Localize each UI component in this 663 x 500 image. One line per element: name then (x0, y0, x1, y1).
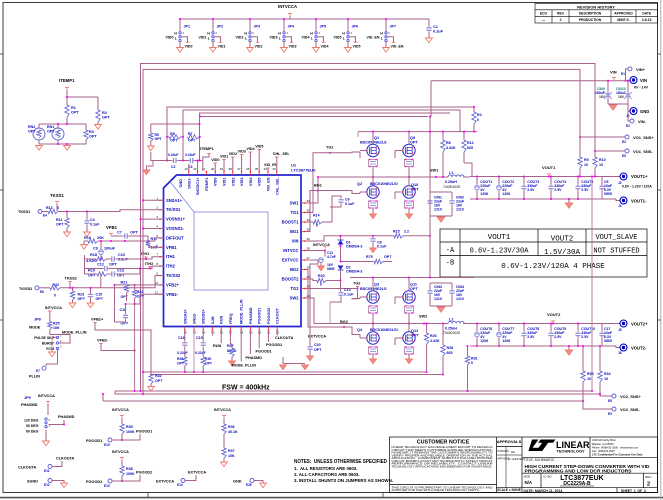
U1 pin 27 EXTVCC (301, 259, 305, 261)
svg-text:R28: R28 (447, 346, 454, 350)
resistor network RN2 (33, 128, 45, 140)
svg-text:GND: GND (640, 109, 649, 114)
svg-text:PHASMD: PHASMD (58, 415, 75, 419)
connector J1 VIN (430, 81, 431, 117)
capacitor COUT6 (475, 332, 480, 337)
svg-text:GND: GND (179, 179, 183, 188)
U1 top pin VID3 (241, 171, 243, 175)
U1 pad diagonal (170, 182, 194, 213)
resistor R9 (578, 157, 582, 168)
svg-text:10K: 10K (228, 454, 235, 458)
svg-text:VID4: VID4 (246, 147, 255, 151)
ground COUT bank (568, 199, 570, 203)
U1 top pin VID0 (214, 171, 216, 175)
wire C2 row left elbow (151, 152, 167, 161)
svg-text:SW2: SW2 (290, 296, 300, 301)
svg-text:E10: E10 (104, 443, 110, 447)
connector E6 (35, 286, 39, 290)
connector E7 (42, 366, 46, 370)
capacitor C11 (305, 250, 325, 252)
svg-text:L: L (208, 37, 210, 41)
svg-text:VID3: VID3 (289, 44, 297, 48)
svg-text:PROGRAMMING AND LOW DCR INDUCT: PROGRAMMING AND LOW DCR INDUCTORS (525, 469, 633, 475)
U1 pin 8 ITH2 (160, 265, 164, 267)
svg-text:CLKOUTA: CLKOUTA (56, 457, 75, 461)
U1 pin 25 BOOST2 (301, 278, 305, 280)
svg-text:RUN: RUN (213, 344, 221, 348)
svg-text:L: L (381, 37, 383, 41)
svg-text:0.1uF: 0.1uF (377, 245, 387, 249)
wire SW1 pin (305, 177, 318, 203)
wire VFB2- drop (134, 304, 136, 351)
svg-text:C2: C2 (171, 165, 176, 169)
wire SNSA1+ pin (143, 199, 164, 201)
svg-text:JP1: JP1 (184, 25, 191, 29)
svg-text:39: 39 (220, 167, 224, 171)
svg-text:VID_EN: VID_EN (391, 44, 404, 48)
svg-text:VID2: VID2 (229, 152, 237, 156)
svg-text:2.5V: 2.5V (554, 188, 562, 192)
svg-text:Q1: Q1 (374, 136, 379, 140)
ground below JP6 (347, 42, 349, 48)
svg-text:R25: R25 (53, 322, 60, 326)
svg-text:ITEMP1: ITEMP1 (200, 147, 214, 151)
svg-text:E5: E5 (622, 154, 626, 158)
svg-text:10K: 10K (53, 326, 60, 330)
svg-text:SW2: SW2 (419, 315, 427, 319)
wire VO2_SNS+ (600, 382, 612, 396)
svg-text:R34: R34 (604, 372, 611, 376)
ground below JP3 (249, 42, 251, 48)
svg-text:OPT: OPT (410, 141, 418, 145)
U1 pin 7 ITH1 (160, 256, 164, 258)
svg-text:E3: E3 (622, 140, 626, 144)
svg-text:60 DEG: 60 DEG (26, 430, 39, 434)
wire Q4 drain (372, 324, 374, 332)
svg-text:CHL_SEL: CHL_SEL (273, 152, 291, 156)
svg-text:OPT: OPT (121, 295, 129, 299)
svg-text:SIZE: SIZE (524, 474, 530, 478)
svg-text:35: 35 (255, 167, 259, 171)
svg-text:0: 0 (320, 283, 322, 287)
svg-text:6V - 14V: 6V - 14V (634, 86, 649, 90)
svg-text:R10: R10 (599, 158, 606, 162)
svg-text:VID5: VID5 (353, 44, 361, 48)
svg-text:120 DEG: 120 DEG (24, 419, 39, 423)
svg-text:OPT: OPT (177, 362, 185, 366)
svg-text:TG1: TG1 (291, 210, 300, 215)
svg-text:OPT: OPT (155, 379, 163, 383)
svg-text:0.22uF: 0.22uF (185, 153, 195, 157)
svg-text:INTVCCA: INTVCCA (112, 408, 129, 412)
ground below C1 (428, 32, 430, 38)
svg-text:VOUT2: VOUT2 (547, 312, 561, 317)
wire COUT2 top bus (470, 323, 612, 325)
svg-text:C4: C4 (90, 218, 95, 222)
svg-text:30.1K: 30.1K (228, 430, 238, 434)
ground C2 row (147, 161, 154, 171)
svg-text:SW1: SW1 (290, 201, 300, 206)
svg-text:BOOST1: BOOST1 (282, 220, 300, 225)
jumper JP1 (179, 19, 181, 32)
svg-text:ECO: ECO (540, 12, 548, 16)
svg-text:INTVCCA: INTVCCA (112, 450, 129, 454)
ground R2 (97, 122, 99, 125)
svg-text:0: 0 (57, 206, 59, 210)
svg-text:E12: E12 (44, 483, 50, 487)
svg-text:E4: E4 (43, 214, 47, 218)
wire remote sense loop 2 (143, 69, 580, 394)
resistor R4 (472, 112, 476, 124)
wire SNS bottom (193, 331, 195, 373)
U1 top pin VID5 (258, 171, 260, 175)
wire gates Q4 Q12 (360, 337, 367, 339)
svg-text:VFB2-: VFB2- (97, 338, 109, 343)
U1 bottom pin ILIM (211, 327, 213, 331)
SW2 bus wire (314, 323, 448, 325)
svg-text:E7: E7 (36, 369, 40, 373)
junction dots (429, 131, 431, 133)
wire TKSS1 (56, 204, 58, 211)
op-amp U1 LTC3877EUK outline (164, 175, 302, 327)
capacitor COUT7 (497, 332, 502, 337)
wire ITEMP band 1 (167, 107, 474, 161)
package pads Q10 (405, 201, 414, 208)
jumper JP6 (347, 19, 349, 32)
svg-text:CLKOUTA: CLKOUTA (275, 336, 294, 340)
wire loop to VOSNS1- (143, 228, 164, 230)
U1 pin 11 VFB2- (160, 293, 164, 295)
svg-text:E13: E13 (104, 484, 110, 488)
svg-text:EXTVCCA: EXTVCCA (308, 335, 326, 339)
svg-text:REV: REV (557, 12, 565, 16)
capacitor C6 (340, 198, 342, 200)
svg-text:VID3: VID3 (240, 178, 244, 186)
svg-text:SW1: SW1 (430, 169, 438, 173)
svg-text:BOOST2: BOOST2 (282, 277, 300, 282)
svg-text:VOUT1: VOUT1 (542, 165, 556, 170)
svg-text:0.1uF: 0.1uF (345, 202, 355, 206)
svg-text:2.5V: 2.5V (581, 188, 589, 192)
wire JP4 pin 2 to net flag (285, 37, 291, 43)
svg-text:CMDSH-3: CMDSH-3 (346, 245, 362, 249)
svg-text:R2: R2 (102, 111, 107, 115)
connector E2 VIN- (628, 111, 630, 121)
svg-text:R26: R26 (430, 334, 437, 338)
ground below JP4 (283, 42, 285, 48)
svg-text:Fax: (408)434-0507: Fax: (408)434-0507 (592, 449, 615, 453)
ground CIN9 (609, 105, 616, 110)
svg-text:L1: L1 (449, 171, 453, 175)
svg-text:1206: 1206 (502, 192, 510, 196)
U1 pin 6 VFB1 (160, 246, 164, 248)
diode D1 CMDSH-3 (338, 240, 344, 245)
wire ITEMP band 2 (183, 110, 460, 161)
package pads Q3 (369, 306, 378, 313)
U1 bottom pin PGOOD1 (258, 327, 260, 331)
ground CIN1 (437, 217, 444, 222)
ground R11 (66, 228, 68, 232)
svg-text:R1: R1 (71, 106, 76, 110)
ground R32 (150, 384, 152, 387)
svg-text:OPT: OPT (137, 295, 145, 299)
U1 top pin ITEMP1 (205, 171, 207, 175)
svg-text:J6: J6 (618, 351, 622, 355)
svg-text:1210: 1210 (434, 208, 442, 212)
wire VOUT1 sense drop (591, 177, 593, 392)
svg-text:OPT: OPT (47, 130, 55, 134)
svg-text:VFB2+: VFB2+ (91, 317, 104, 322)
ground R5 (150, 141, 152, 146)
ground JP8 (52, 338, 58, 353)
svg-text:VOUT1+: VOUT1+ (631, 174, 648, 179)
svg-text:R13: R13 (46, 206, 53, 210)
ground R37 (223, 458, 225, 462)
svg-text:R38: R38 (126, 467, 133, 471)
svg-text:RN2: RN2 (28, 125, 35, 129)
svg-text:C18: C18 (178, 336, 185, 340)
svg-text:36: 36 (246, 167, 250, 171)
svg-text:VOSNS1+: VOSNS1+ (166, 217, 186, 222)
svg-text:VOUT2-: VOUT2- (631, 346, 647, 351)
svg-text:10: 10 (604, 377, 608, 381)
svg-text:TG2: TG2 (291, 286, 300, 291)
wire ITEMP band 4 (200, 116, 428, 118)
svg-text:L: L (311, 37, 313, 41)
svg-text:L: L (279, 37, 281, 41)
wire JP7 pin 2 to net flag (387, 37, 393, 43)
wire bottom bus 1 (115, 391, 600, 394)
ground below JP2 (212, 42, 214, 48)
wire Q1 source to SW (372, 167, 374, 178)
wire JP5 pin 2 to net flag (317, 37, 323, 43)
U1 bottom pin RUN (220, 327, 222, 331)
wire to U1 pin VID5 (258, 150, 260, 172)
U1 pin 5 DIFFOUT (160, 237, 164, 239)
svg-text:DIFFOUT: DIFFOUT (166, 235, 184, 240)
svg-text:0805: 0805 (327, 267, 335, 271)
svg-text:INTVCCA: INTVCCA (313, 243, 330, 247)
svg-text:VID0: VID0 (214, 178, 218, 186)
svg-text:0.22uF: 0.22uF (177, 351, 188, 355)
svg-text:REVISION HISTORY: REVISION HISTORY (577, 4, 615, 9)
svg-text:E9: E9 (608, 412, 612, 416)
svg-text:R9: R9 (584, 158, 589, 162)
wire ITEMP band 3 (200, 113, 451, 161)
capacitor COUT9 (550, 332, 552, 334)
wire VIN pin filter (305, 236, 324, 241)
svg-text:LTC Confidential-For Customer: LTC Confidential-For Customer Use Only (592, 452, 643, 456)
svg-text:744301025: 744301025 (443, 185, 460, 189)
svg-text:INTVCCA: INTVCCA (38, 394, 55, 398)
resistor R5 (149, 133, 153, 141)
svg-text:SNSD2+: SNSD2+ (202, 308, 206, 324)
ground Q4 Q12 (372, 354, 374, 359)
svg-text:PGOOD2: PGOOD2 (267, 308, 271, 324)
svg-text:3-6-15: 3-6-15 (642, 18, 652, 22)
wire gate Q9 (359, 152, 361, 158)
U1 top pin VID2 (232, 171, 234, 175)
wire BG2 gate (305, 270, 360, 335)
resistor R12 (462, 140, 466, 152)
svg-text:CLKOUTA: CLKOUTA (18, 466, 37, 470)
svg-text:VID1: VID1 (199, 36, 207, 40)
svg-text:DATE: MARCH 11, 2014: DATE: MARCH 11, 2014 (524, 489, 563, 493)
connector E13 PGOOD2 (121, 476, 123, 481)
svg-text:SCALE = NONE: SCALE = NONE (497, 488, 521, 492)
wires RN network (39, 123, 67, 125)
svg-text:0.22uF: 0.22uF (168, 153, 178, 157)
package pads Q11 (405, 306, 414, 313)
svg-text:INTVCCA: INTVCCA (278, 4, 297, 9)
svg-text:N/A: N/A (525, 480, 533, 485)
capacitor COUT2 (497, 185, 502, 190)
svg-text:FSW = 400kHz: FSW = 400kHz (222, 385, 270, 392)
U1 top pin VID_EN (267, 171, 269, 175)
svg-text:100K: 100K (126, 430, 135, 434)
svg-text:C6: C6 (345, 198, 350, 202)
svg-text:JP9: JP9 (24, 396, 31, 400)
connector J5 VOUT2+ (612, 323, 620, 325)
svg-text:R3: R3 (89, 130, 94, 134)
svg-text:SNS2-: SNS2- (193, 312, 197, 324)
svg-text:INTVCC: INTVCC (283, 248, 298, 253)
resistor R1 (65, 105, 69, 117)
wire to U1 pin VID3 (241, 155, 243, 172)
wire R1 to RN (66, 117, 68, 124)
svg-text:3.32K: 3.32K (430, 339, 440, 343)
wire TG1 gate (305, 152, 360, 213)
svg-text:2.5V: 2.5V (581, 335, 589, 339)
wire to U1 pin VID4 (249, 152, 251, 171)
svg-text:VID1: VID1 (220, 155, 228, 159)
svg-text:OPT: OPT (130, 231, 138, 235)
resistor R28 (441, 345, 445, 356)
wire Q2 drain (372, 177, 374, 186)
svg-text:FREQ: FREQ (229, 313, 233, 324)
svg-text:R33: R33 (587, 372, 594, 376)
U1 top pin VID1 (223, 171, 225, 175)
svg-text:EXTVCC: EXTVCC (282, 258, 299, 263)
wire Q3 source to SW2 (372, 313, 374, 324)
svg-text:JP8: JP8 (34, 318, 41, 322)
svg-text:C20: C20 (314, 343, 321, 347)
svg-text:VOSNS1-: VOSNS1- (166, 226, 185, 231)
wire remote sense loop 1 (141, 64, 596, 392)
resistor R35 (121, 418, 123, 424)
svg-text:OPT: OPT (410, 287, 418, 291)
U1 pin 10 VFB2+ (160, 284, 164, 286)
connector J4 VOUT1- (612, 198, 616, 200)
svg-text:E2: E2 (626, 124, 630, 128)
svg-text:MODE: MODE (29, 326, 41, 330)
svg-text:BG1: BG1 (314, 184, 322, 188)
svg-text:OPT: OPT (155, 137, 163, 141)
svg-text:E11: E11 (44, 469, 50, 473)
svg-text:JP3: JP3 (254, 25, 261, 29)
svg-text:VIN: VIN (292, 239, 299, 244)
wire PHASMD out (49, 420, 64, 425)
svg-text:VID_EN: VID_EN (367, 36, 380, 40)
wire to U1 pin CHL_SEL (276, 157, 278, 171)
svg-text:PRODUCTION: PRODUCTION (579, 18, 602, 22)
resistor R34 (598, 371, 602, 382)
resistor R33 (581, 371, 585, 382)
wire SW2 pin (305, 298, 314, 324)
svg-text:OPT: OPT (170, 138, 178, 142)
svg-text:-A: -A (446, 247, 455, 255)
svg-text:BG1: BG1 (290, 229, 299, 234)
svg-text:OPT: OPT (89, 135, 97, 139)
resistor R3 (84, 130, 88, 140)
svg-text:OPT: OPT (28, 130, 36, 134)
wire COUT bottom bus (470, 198, 612, 200)
svg-text:1206: 1206 (480, 192, 488, 196)
svg-text:R22: R22 (53, 283, 60, 287)
wire VO1_SNS- (595, 151, 625, 157)
svg-text:L: L (343, 37, 345, 41)
svg-text:1. ALL RESISTORS ARE 0603.: 1. ALL RESISTORS ARE 0603. (294, 466, 357, 471)
U1 bottom pin MODE_PLLIN (240, 327, 242, 331)
svg-text:R4: R4 (477, 113, 482, 117)
svg-text:2: 2 (560, 18, 562, 22)
wire SNS1- stub (188, 164, 190, 171)
svg-text:INTVCCA: INTVCCA (45, 306, 62, 310)
resistor R25 (49, 311, 51, 322)
svg-text:0: 0 (477, 118, 479, 122)
svg-text:3. INSTALL SHUNTS ON JUMPERS A: 3. INSTALL SHUNTS ON JUMPERS AS SHOWN. (294, 478, 393, 483)
svg-text:38: 38 (228, 167, 232, 171)
wire R5 top (151, 123, 200, 125)
resistor R8 (441, 140, 445, 152)
wire JP3 pin 2 to net flag (251, 37, 257, 43)
wire ITEMP1 down (66, 90, 68, 105)
svg-text:10: 10 (599, 163, 603, 167)
U1 pin 31 BOOST1 (301, 221, 305, 223)
svg-text:J4: J4 (618, 204, 622, 208)
svg-text:0.6V-1.23V/30A: 0.6V-1.23V/30A (470, 248, 530, 256)
svg-text:0: 0 (471, 361, 473, 365)
svg-text:VOUT2+: VOUT2+ (631, 322, 648, 327)
svg-text:0.22uF: 0.22uF (195, 351, 206, 355)
svg-text:0.25uH: 0.25uH (445, 327, 457, 331)
U1 pin 28 INTVCC (301, 250, 305, 252)
ground RN1 (38, 140, 40, 144)
capacitor C14 (340, 291, 342, 293)
ground CIN3 (437, 307, 444, 312)
svg-text:SGND: SGND (27, 480, 38, 484)
svg-text:0.1uF: 0.1uF (433, 30, 444, 34)
svg-text:R29: R29 (177, 357, 183, 361)
connector E1 VIN+ (626, 69, 629, 81)
resistor R32 (149, 374, 153, 384)
svg-text:MODE_PLLIN: MODE_PLLIN (62, 331, 87, 335)
svg-text:VID5: VID5 (258, 178, 262, 186)
svg-text:APPROVED: APPROVED (614, 12, 633, 16)
package pads Q2 (369, 201, 378, 208)
svg-text:JP2: JP2 (217, 25, 224, 29)
svg-text:0.1uF: 0.1uF (344, 293, 354, 297)
svg-text:M. GHIOVEN: M. GHIOVEN (508, 457, 524, 461)
resistor R37 (223, 434, 225, 448)
wires JP8 (49, 330, 51, 335)
svg-text:JP6: JP6 (352, 25, 359, 29)
U1 bottom pin FREQ (229, 327, 231, 331)
svg-text:JP4: JP4 (288, 25, 296, 29)
svg-text:VIN+: VIN+ (636, 67, 646, 72)
svg-text:1206: 1206 (480, 339, 488, 343)
ground below JP7 (385, 42, 387, 48)
